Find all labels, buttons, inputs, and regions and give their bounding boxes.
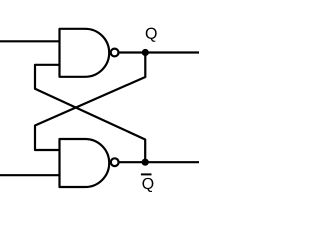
wire R input (bottom-left to U2 bottom input) [0,174,60,176]
label Qbar Q [142,178,153,192]
wire Q output (bubble to right edge) [119,51,200,53]
label Q [146,28,157,42]
nand gate U2 body [60,139,110,187]
nand gate U1 inversion bubble [111,49,119,57]
label Qbar overbar [141,173,152,175]
node Qbar junction dot [142,159,149,166]
nand gate U1 body [60,29,110,77]
wire feedback from node Qbar to U1 bottom input [35,65,145,162]
node Q junction dot [142,49,149,56]
nand gate U2 inversion bubble [111,158,119,166]
wire Qbar output (bubble to right edge) [119,161,199,163]
wire feedback from node Q to U2 top input [35,53,145,151]
wire S input (top-left to U1 top input) [0,40,60,42]
